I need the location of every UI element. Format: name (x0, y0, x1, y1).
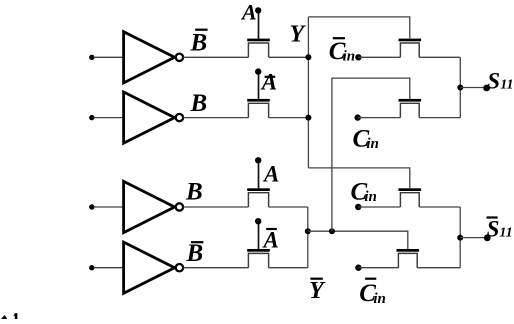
node C-in (source of M7) (355, 204, 361, 210)
label A-bar (gate of M2) (260, 70, 277, 95)
wire Y to gate of M7 (308, 168, 409, 188)
svg-text:Y: Y (290, 22, 307, 48)
input node row 4 (89, 265, 94, 270)
transistor M2 channel/source/drain (248, 103, 268, 117)
input node row 1 (89, 55, 94, 60)
label C-in-bar (M8 source) (359, 278, 386, 307)
svg-text:A: A (262, 161, 279, 186)
transistor M2 gate lead (258, 72, 260, 99)
node C-in (source of M6) (355, 114, 361, 120)
gate node of M1 (255, 7, 261, 13)
node C-in-bar (source of M8) (355, 265, 361, 271)
wire node Y-bar vertical bus (307, 207, 309, 268)
transistor M8 gate bar (397, 249, 420, 252)
wire to S11 output (460, 87, 486, 89)
svg-text:B: B (186, 240, 204, 267)
wire input to INV4 (94, 267, 124, 269)
transistor M3 channel/source/drain (248, 193, 268, 207)
transistor M4 gate bar (247, 249, 270, 252)
svg-text:in: in (373, 291, 386, 307)
junction S11 bus tap (457, 85, 463, 91)
wire INV1 output to pass transistor (183, 56, 248, 58)
svg-text:A: A (260, 70, 277, 95)
wire S11 vertical bus (459, 57, 461, 117)
transistor M3 gate lead (258, 160, 260, 188)
inverter INV4 (124, 242, 183, 293)
label S11-bar (487, 216, 513, 241)
label C-in (M7 source) (351, 179, 377, 206)
label C-in-bar (M5 source) (329, 37, 355, 65)
wire INV4 output to pass transistor (183, 267, 248, 269)
label S11 (487, 69, 513, 94)
wire C-in to M6 source (358, 117, 401, 119)
wire Y-bar to gate of M8 (308, 231, 408, 250)
node C-in-bar (source of M5) (355, 54, 361, 60)
transistor M1 channel/source/drain (248, 43, 268, 57)
wire M4 drain to node Y-bar (269, 267, 308, 269)
label B-bar (INV4 output) (186, 240, 204, 267)
label C-in (M6 source) (353, 126, 379, 153)
transistor M7 gate bar (399, 188, 422, 191)
node S11-bar output (484, 234, 491, 241)
wire Y to gate of M5 (308, 17, 409, 38)
wire M8 drain to S11-bar bus (417, 267, 460, 269)
transistor M4 channel/source/drain (248, 253, 268, 267)
transistor M8 channel/source/drain (398, 253, 417, 267)
wire INV3 output to pass transistor (183, 206, 248, 208)
svg-text:in: in (343, 49, 356, 65)
wire M5 drain to S11 bus (419, 56, 460, 58)
svg-text:B: B (185, 179, 203, 206)
label Y-bar (309, 278, 326, 304)
wire M7 drain to S11-bar bus (419, 206, 460, 208)
transistor M2 gate bar (247, 99, 270, 102)
svg-text:Y: Y (309, 278, 326, 304)
wire C-in to M7 source (358, 206, 400, 208)
label A-bar (gate of M4) (262, 228, 279, 253)
transistor M1 gate lead (258, 10, 260, 38)
transistor M4 gate lead (258, 221, 260, 249)
wire to S11-bar output (460, 237, 487, 239)
label B-bar (INV1 output) (190, 29, 208, 57)
svg-text:in: in (366, 136, 379, 152)
label A (gate of M3) (262, 161, 279, 186)
inverter INV3 (124, 181, 183, 232)
svg-text:S: S (487, 69, 500, 94)
wire M2 drain to node Y (269, 117, 309, 119)
transistor M1 gate bar (247, 39, 270, 42)
input node row 2 (89, 115, 94, 120)
label B (INV2 output) (190, 90, 208, 117)
junction node Y (row2) (305, 115, 311, 121)
junction node Y-bar tap (305, 228, 311, 234)
wire input to INV3 (94, 206, 124, 208)
wire C-in-bar to M8 source (358, 267, 398, 269)
inverter INV2 (124, 92, 183, 143)
label A (gate of M1) (240, 0, 257, 24)
svg-text:A: A (240, 0, 257, 24)
wire input to INV1 (94, 56, 124, 58)
inverter INV1 (124, 32, 183, 83)
wire Y-bar to gate of M6 (332, 78, 410, 231)
transistor M6 gate bar (399, 99, 422, 102)
transistor M3 gate bar (247, 188, 270, 191)
junction Y-bar to M6 gate branch (329, 228, 335, 234)
svg-text:in: in (364, 189, 377, 205)
svg-text:S: S (487, 217, 500, 242)
wire M1 drain to node Y (269, 56, 309, 58)
wire node Y vertical bus (307, 17, 309, 168)
wire input to INV2 (94, 117, 124, 119)
gate node of M2 (255, 68, 261, 74)
wire M3 drain to node Y-bar (269, 206, 308, 208)
wire S11-bar vertical bus (459, 207, 461, 268)
transistor M5 channel/source/drain (400, 43, 419, 57)
wire M6 drain to S11 bus (419, 117, 460, 119)
gate node of M4 (255, 218, 261, 224)
svg-text:B: B (190, 90, 208, 117)
svg-text:11: 11 (499, 226, 512, 241)
wire INV2 output to pass transistor (183, 117, 248, 119)
svg-text:11: 11 (500, 78, 513, 93)
gate node of M3 (255, 157, 261, 163)
wire C-in-bar to M5 source (358, 56, 400, 58)
junction S11-bar bus tap (457, 235, 463, 241)
svg-text:B: B (190, 29, 208, 56)
input node row 3 (89, 204, 94, 209)
caption fragment (cropped) (1, 313, 17, 319)
node S11 output (483, 85, 490, 92)
transistor M6 channel/source/drain (400, 103, 419, 117)
svg-text:A: A (262, 228, 279, 253)
transistor M7 channel/source/drain (400, 193, 419, 207)
transistor M5 gate bar (399, 39, 422, 42)
label B (INV3 output) (185, 179, 203, 206)
label Y (290, 22, 307, 48)
junction node Y (row1) (305, 54, 311, 60)
